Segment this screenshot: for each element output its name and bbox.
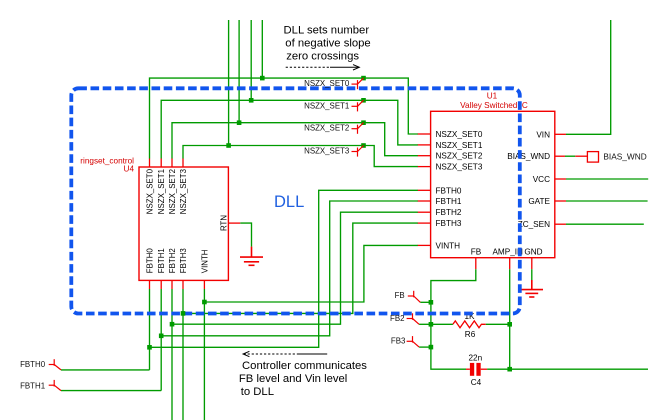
svg-text:NSZX_SET0: NSZX_SET0 [145,168,154,214]
wire top feed SET1 [250,20,252,100]
svg-text:NSZX_SET2: NSZX_SET2 [168,169,177,214]
svg-text:BIAS_WND: BIAS_WND [603,152,646,162]
node NSZX_SET0 label [304,78,363,89]
svg-text:NSZX_SET0: NSZX_SET0 [304,79,350,88]
wire top feed SET2 [238,20,240,123]
svg-text:zero crossings: zero crossings [286,50,359,62]
svg-text:FB level and Vin level: FB level and Vin level [239,373,347,385]
svg-text:FBTH2: FBTH2 [436,208,462,217]
resistor R6 [453,312,486,339]
svg-text:GND: GND [524,248,542,257]
svg-text:of negative slope: of negative slope [285,38,370,50]
port BIAS_WND [575,152,646,163]
svg-text:GATE: GATE [528,197,550,206]
port FBTH0 [20,359,61,370]
wire GATE [566,200,648,202]
wire RTN to ground [240,223,251,247]
node NSZX_SET1 label [304,100,363,111]
port FB [395,291,421,303]
wire VINTH [203,289,205,420]
svg-text:FBTH0: FBTH0 [20,360,46,369]
svg-text:NSZX_SET0: NSZX_SET0 [436,130,483,139]
op-amp U4 ringset_control box [80,157,228,281]
svg-text:NSZX_SET1: NSZX_SET1 [304,101,349,110]
wire FB net [431,269,476,369]
node NSZX_SET3 label [304,146,363,157]
ground (RTN) [240,247,263,266]
wire GND [531,269,533,280]
wire FBTH2 [171,289,173,420]
op-amp U1 Valley Switched IC box [431,91,555,257]
svg-text:U4: U4 [124,165,135,174]
wire FB3 port link [419,346,431,348]
svg-text:RTN: RTN [219,215,228,231]
wire ZC_SEN [566,223,644,225]
svg-text:NSZX_SET1: NSZX_SET1 [436,141,483,150]
wire NSZX_SET1 [161,100,418,158]
svg-text:FB2: FB2 [390,314,404,323]
svg-text:FB: FB [395,291,405,300]
svg-text:FB: FB [471,248,482,257]
wire NSZX_SET3 [183,146,418,167]
wire NSZX_SET2 [172,123,418,159]
wire AMP_IN [509,269,511,369]
wire FBTH1 [160,289,162,391]
svg-text:FBTH3: FBTH3 [436,219,462,228]
annotation top [284,25,371,63]
svg-text:VIN: VIN [536,130,550,139]
wire R6 left lead [431,323,453,325]
wire NSZX_SET0 [150,78,418,158]
port FB2 [390,313,419,324]
svg-text:DLL sets number: DLL sets number [284,25,370,37]
svg-text:NSZX_SET1: NSZX_SET1 [157,169,166,214]
svg-text:VINTH: VINTH [436,241,461,250]
svg-text:C4: C4 [471,378,482,387]
svg-text:Controller communicates: Controller communicates [242,360,367,372]
port FB3 [391,336,419,347]
svg-text:VINTH: VINTH [200,249,209,273]
wire R6 right lead [486,323,510,325]
ground (GND) [521,280,544,297]
svg-text:FBTH2: FBTH2 [168,248,177,273]
svg-text:R6: R6 [465,330,476,339]
wire FB2 port link [419,323,431,325]
annotation bottom [239,360,367,398]
svg-text:NSZX_SET3: NSZX_SET3 [436,163,483,172]
wire VCC [566,178,648,180]
svg-text:ZC_SEN: ZC_SEN [518,220,550,229]
svg-text:VCC: VCC [533,175,550,184]
svg-text:BIAS_WND: BIAS_WND [507,152,550,161]
wire top feed SET0 [261,20,263,78]
svg-text:FBTH0: FBTH0 [436,186,462,195]
svg-text:FBTH3: FBTH3 [179,248,188,274]
wire FBTH3 [182,289,184,420]
wire VIN [566,20,611,134]
annotation top arrow [286,65,360,70]
wire top feed SET3 [228,20,230,146]
svg-text:NSZX_SET3: NSZX_SET3 [179,168,188,214]
node NSZX_SET2 label [304,123,363,134]
svg-text:NSZX_SET2: NSZX_SET2 [304,124,349,133]
svg-text:FB3: FB3 [391,336,406,345]
wire C4 right to edge [487,368,648,370]
svg-text:NSZX_SET2: NSZX_SET2 [436,152,483,161]
svg-text:NSZX_SET3: NSZX_SET3 [304,147,350,156]
svg-text:FBTH1: FBTH1 [157,248,166,273]
wire BIAS_WND [565,155,575,157]
capacitor C4 [466,353,487,387]
svg-text:FBTH1: FBTH1 [436,197,462,206]
wire FB port link [420,301,431,303]
wire FBTH0 [149,289,151,370]
port FBTH1 [20,380,61,391]
svg-text:22n: 22n [469,353,483,362]
annotation bottom arrow [243,351,327,356]
U4 pin stubs [150,158,241,289]
U1 pin stubs [418,134,567,269]
svg-text:FBTH0: FBTH0 [145,248,154,274]
svg-text:FBTH1: FBTH1 [20,381,45,390]
svg-text:Valley Switched IC: Valley Switched IC [460,101,528,110]
svg-text:to DLL: to DLL [241,386,274,398]
DLL dashed boundary box [71,88,520,313]
svg-text:U1: U1 [487,91,498,100]
svg-text:DLL: DLL [274,193,304,211]
